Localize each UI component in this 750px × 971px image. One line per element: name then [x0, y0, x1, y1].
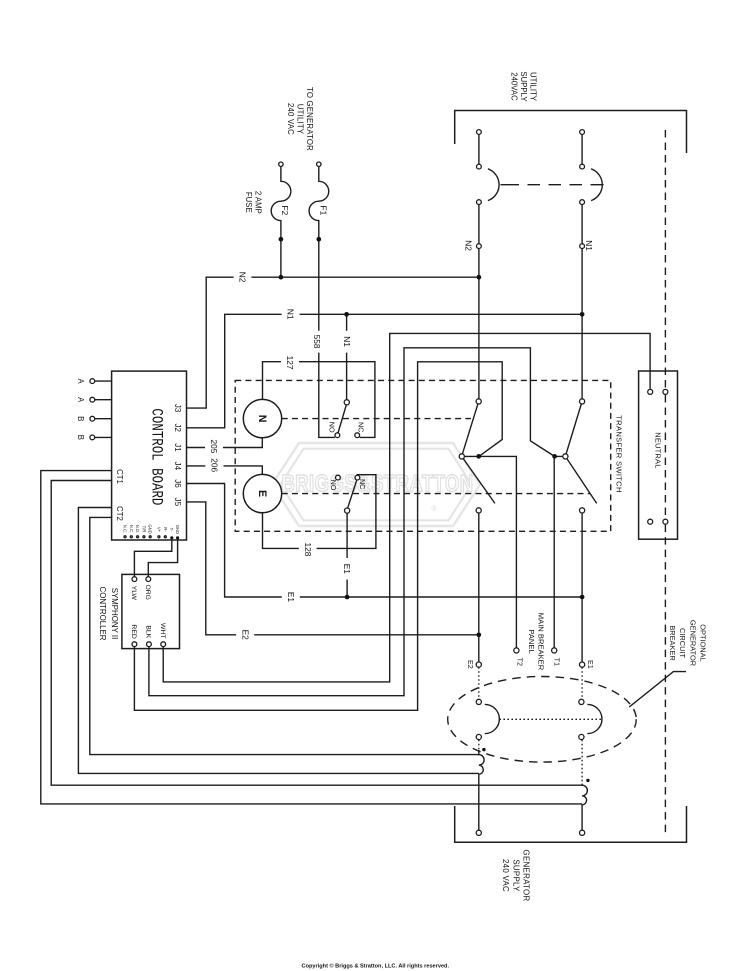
- svg-text:ORG: ORG: [144, 584, 151, 599]
- svg-text:N1: N1: [286, 309, 296, 320]
- svg-text:N.C.: N.C.: [129, 525, 134, 533]
- svg-text:T-: T-: [169, 528, 174, 532]
- svg-text:127: 127: [285, 356, 295, 370]
- svg-text:2 AMPFUSE: 2 AMPFUSE: [244, 191, 262, 214]
- svg-text:T/R: T/R: [141, 526, 146, 533]
- svg-text:GND: GND: [148, 524, 153, 533]
- svg-text:NO: NO: [328, 422, 337, 433]
- svg-text:BLK: BLK: [144, 625, 151, 638]
- svg-text:F1: F1: [319, 206, 329, 216]
- svg-text:E1: E1: [342, 564, 352, 575]
- svg-text:YLW: YLW: [130, 586, 137, 601]
- svg-text:TRANSFER SWITCH: TRANSFER SWITCH: [615, 415, 624, 492]
- svg-text:N2: N2: [464, 240, 474, 251]
- svg-text:558: 558: [312, 335, 322, 349]
- svg-text:E: E: [256, 490, 268, 497]
- svg-text:A: A: [76, 378, 85, 384]
- svg-text:E1: E1: [586, 660, 595, 669]
- svg-text:MAIN BREAKERPANEL: MAIN BREAKERPANEL: [527, 613, 546, 671]
- svg-text:UTILITYSUPPLY240VAC: UTILITYSUPPLY240VAC: [510, 71, 538, 102]
- svg-text:®: ®: [431, 505, 437, 513]
- svg-text:B: B: [76, 435, 85, 440]
- svg-text:WHT: WHT: [159, 623, 166, 638]
- svg-text:NO: NO: [329, 480, 338, 491]
- svg-text:206: 206: [210, 458, 220, 472]
- svg-text:J5: J5: [173, 498, 182, 507]
- svg-text:T1: T1: [553, 658, 562, 666]
- svg-text:OPTIONALGENERATORCIRCUITBREAKE: OPTIONALGENERATORCIRCUITBREAKER: [668, 620, 708, 666]
- svg-text:TO GENERATORUTILITY240 VAC: TO GENERATORUTILITY240 VAC: [286, 87, 314, 151]
- svg-text:SYMPHONY IICONTROLLER: SYMPHONY IICONTROLLER: [98, 587, 119, 641]
- svg-text:NC: NC: [357, 422, 366, 432]
- svg-text:NC: NC: [358, 479, 367, 489]
- svg-text:J6: J6: [173, 479, 182, 488]
- svg-text:CONTROL BOARD: CONTROL BOARD: [148, 408, 166, 505]
- svg-text:CT2: CT2: [115, 506, 124, 521]
- svg-text:GND: GND: [175, 525, 180, 534]
- svg-text:J1: J1: [173, 443, 182, 452]
- svg-text:E1: E1: [286, 592, 296, 603]
- svg-text:A: A: [76, 397, 85, 403]
- svg-text:J2: J2: [173, 424, 182, 433]
- svg-text:N1: N1: [584, 240, 594, 251]
- svg-text:GENERATORSUPPLY240 VAC: GENERATORSUPPLY240 VAC: [501, 850, 531, 902]
- svg-text:Copyright © Briggs & Stratton,: Copyright © Briggs & Stratton, LLC. All …: [302, 963, 450, 970]
- svg-text:N.C.: N.C.: [123, 525, 128, 533]
- svg-text:128: 128: [303, 542, 313, 556]
- svg-text:R-: R-: [163, 527, 168, 532]
- svg-text:J4: J4: [173, 462, 182, 471]
- svg-text:205: 205: [209, 439, 219, 453]
- svg-text:E2: E2: [466, 660, 475, 669]
- svg-text:E2: E2: [240, 630, 250, 641]
- svg-text:V+: V+: [156, 527, 161, 533]
- svg-text:RED: RED: [130, 624, 137, 638]
- svg-text:N: N: [256, 415, 268, 423]
- svg-text:J3: J3: [173, 404, 182, 413]
- svg-text:N1: N1: [342, 336, 352, 347]
- svg-text:T2: T2: [515, 658, 524, 666]
- svg-text:B: B: [76, 416, 85, 421]
- svg-text:F2: F2: [280, 206, 290, 216]
- svg-text:CT1: CT1: [115, 469, 124, 484]
- svg-text:N.D.: N.D.: [135, 525, 140, 533]
- svg-text:NEUTRAL: NEUTRAL: [653, 432, 662, 468]
- svg-text:N2: N2: [238, 272, 248, 283]
